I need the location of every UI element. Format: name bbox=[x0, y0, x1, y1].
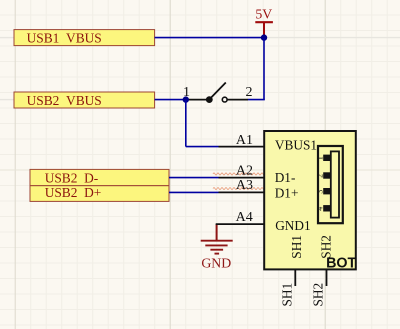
differential pair squiggle over A3 bbox=[213, 188, 267, 190]
port USB1_VBUS bbox=[14, 30, 155, 46]
junction at 5V node bbox=[261, 34, 267, 40]
svg-text:2: 2 bbox=[316, 174, 325, 178]
wire: USB1 VBUS to 5V node bbox=[155, 37, 264, 39]
switch pin 1 line bbox=[186, 99, 210, 101]
pin SH1 (bottom) bbox=[280, 270, 296, 307]
svg-text:SH1: SH1 bbox=[280, 283, 295, 307]
connector U1 body bbox=[264, 131, 356, 269]
svg-text:USB1 VBUS: USB1 VBUS bbox=[27, 31, 102, 46]
switch S1 bbox=[183, 83, 253, 104]
pin A3 bbox=[219, 178, 265, 193]
USB contact 4 bbox=[323, 205, 330, 211]
svg-text:BOT: BOT bbox=[326, 256, 356, 272]
wire: USB2 D- to pin A2 bbox=[169, 177, 219, 179]
switch throw contact (open circle) bbox=[222, 97, 227, 102]
wire: USB1 VBUS left stub (faint) bbox=[0, 37, 15, 39]
switch pole contact bbox=[206, 96, 213, 103]
svg-text:USB2 D+: USB2 D+ bbox=[45, 185, 102, 200]
svg-text:3: 3 bbox=[316, 190, 325, 194]
wire: USB2 VBUS to switch pin 1 node bbox=[155, 99, 186, 101]
USB contact 3 bbox=[323, 188, 330, 194]
differential pair squiggle over A2 bbox=[213, 173, 267, 175]
power port 5V bbox=[255, 7, 273, 38]
svg-text:GND1: GND1 bbox=[275, 218, 310, 233]
wire: USB2 D+ to pin A3 bbox=[169, 191, 219, 193]
wire: vertical down to A1 level bbox=[185, 100, 187, 147]
switch pin 2 line bbox=[227, 99, 248, 101]
USB contact 1 bbox=[323, 155, 330, 161]
svg-text:SH1: SH1 bbox=[289, 235, 304, 259]
USB receptacle graphic outer shell bbox=[318, 146, 343, 223]
svg-text:5V: 5V bbox=[255, 7, 272, 22]
svg-text:A1: A1 bbox=[236, 133, 253, 148]
faint continuation line right of 5V node bbox=[264, 37, 400, 39]
ground GND bbox=[201, 224, 233, 270]
junction at switch pin 1 / A1 branch bbox=[183, 96, 189, 102]
svg-text:A3: A3 bbox=[236, 178, 253, 193]
switch lever bbox=[210, 83, 226, 100]
svg-text:USB2 D-: USB2 D- bbox=[45, 170, 99, 185]
wire: vertical from 5V node down to switch pin 2 bbox=[263, 38, 265, 100]
svg-text:1: 1 bbox=[316, 156, 325, 160]
wire: to pin A1 bbox=[186, 146, 219, 148]
port USB2_VBUS bbox=[14, 92, 155, 108]
svg-text:VBUS1: VBUS1 bbox=[275, 138, 317, 153]
wire: USB2 VBUS left stub (faint) bbox=[0, 99, 15, 101]
pin SH2 (bottom) bbox=[311, 270, 327, 307]
svg-text:A2: A2 bbox=[236, 164, 253, 179]
USB receptacle tongue bbox=[331, 151, 339, 217]
pin A4 bbox=[216, 210, 265, 225]
svg-text:D1+: D1+ bbox=[275, 185, 299, 200]
port USB2_D- bbox=[30, 169, 169, 185]
svg-text:USB2 VBUS: USB2 VBUS bbox=[27, 93, 102, 108]
svg-text:4: 4 bbox=[316, 207, 325, 211]
port USB2_D+ bbox=[30, 185, 169, 201]
pin A2 bbox=[219, 164, 265, 179]
svg-text:D1-: D1- bbox=[275, 170, 296, 185]
svg-text:2: 2 bbox=[246, 85, 253, 100]
pin A1 bbox=[219, 133, 265, 148]
svg-text:SH2: SH2 bbox=[311, 283, 326, 307]
wire: switch pin2 to vertical bbox=[248, 99, 265, 101]
svg-text:GND: GND bbox=[201, 255, 231, 270]
USB contact 2 bbox=[323, 172, 330, 178]
svg-text:A4: A4 bbox=[236, 210, 253, 225]
